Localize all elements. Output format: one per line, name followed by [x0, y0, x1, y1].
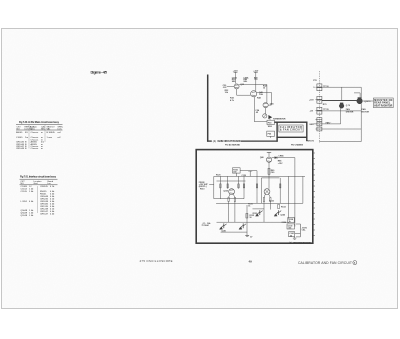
wire supply2 to Q40: [255, 72, 257, 91]
wire drop 5: [256, 171, 258, 204]
wire drop 8: [288, 176, 290, 218]
svg-text:m: m: [41, 148, 43, 150]
title box CALIBRATOR AND FAN CIRCUIT: [279, 125, 303, 132]
tab leg right: [306, 137, 308, 141]
wire Q40 collector to Q50 base: [257, 91, 272, 93]
wire R150 down: [235, 173, 237, 176]
svg-text:L 2051: L 2051: [21, 201, 28, 203]
svg-text:R120: R120: [216, 175, 221, 177]
ground under C141: [294, 237, 296, 238]
svg-text:TO FAN MOTOR: TO FAN MOTOR: [273, 117, 286, 120]
resistor R127: [256, 184, 257, 188]
tab leg left: [276, 137, 278, 141]
svg-text:R110: R110: [200, 188, 204, 190]
wire Q120 leg left down: [228, 201, 230, 222]
svg-text:B6045: B6045: [16, 132, 23, 134]
svg-text:B 30845: B 30845: [47, 132, 56, 134]
pin 1: [317, 84, 322, 87]
svg-text:MOUNTED ON: MOUNTED ON: [374, 100, 392, 102]
calibrator board outline (thick): [196, 150, 313, 244]
resistor R134: [278, 205, 280, 209]
wire Q1070 collector stub: [359, 93, 361, 97]
transistor Q40: [251, 91, 257, 97]
transistor Q30: [234, 84, 239, 89]
svg-text:CALIBRATOR AND FAN CIRCUIT: CALIBRATOR AND FAN CIRCUIT: [298, 261, 352, 265]
resistor R122: [227, 184, 228, 188]
svg-text:Diagrams—475: Diagrams—475: [91, 71, 108, 75]
transistor Q1070 (case): [357, 98, 363, 104]
wire gnd run: [322, 128, 361, 130]
board border bottom segment 2: [241, 140, 278, 142]
wire C30 to base: [227, 85, 234, 87]
svg-text:R133: R133: [253, 213, 258, 215]
transistor Q141: [242, 223, 244, 228]
tab stub to P50: [274, 121, 277, 123]
svg-text:P/O A1 MAIN BD: P/O A1 MAIN BD: [225, 144, 240, 147]
pin 2: [317, 96, 322, 99]
svg-text:300: 300: [233, 172, 236, 174]
wire short rail: [253, 208, 265, 210]
svg-text:C1045: C1045: [16, 137, 23, 139]
wire drop 7: [279, 178, 281, 203]
svg-text:CR1048: CR1048: [16, 148, 25, 150]
wire fan plus (heavy): [322, 100, 357, 102]
wire Q30 emitter to Q40 base: [236, 89, 238, 95]
wire R42 branch down to Q50: [266, 85, 268, 103]
resistor box R150: [233, 168, 241, 173]
diode CR85: [272, 157, 295, 159]
svg-text:Chassis: Chassis: [31, 148, 40, 150]
resistor R121: [220, 184, 221, 188]
svg-text:Q146: Q146: [280, 213, 285, 216]
wire Q70 branch: [340, 105, 342, 124]
wire supply1 to Q30: [235, 72, 237, 83]
wire right bus down: [294, 158, 296, 227]
svg-text:49: 49: [249, 259, 253, 263]
box C139: [287, 224, 295, 229]
wire Q40 emitter down: [253, 97, 255, 122]
CR55 to P50 stub: [269, 119, 271, 120]
svg-text:HEAT RADIATOR: HEAT RADIATOR: [374, 104, 392, 107]
table Fig 7-20: [16, 121, 64, 150]
svg-text:47: 47: [250, 236, 252, 239]
wire Q1070 to note: [363, 100, 373, 102]
wire drop 3: [238, 176, 240, 188]
transistor Q146: [277, 210, 279, 215]
connector P55 box: [267, 131, 275, 136]
svg-text:C85345: C85345: [40, 186, 48, 188]
transistor Q130: [264, 189, 270, 195]
transistor Q120: [229, 189, 235, 195]
resistor R125: [228, 198, 229, 202]
transistor Q50: [263, 103, 268, 108]
wire R150 right: [240, 170, 257, 172]
svg-text:75 OHM: 75 OHM: [202, 225, 209, 227]
bottom rail left: [221, 231, 248, 233]
wire Q30 collector run: [239, 84, 267, 86]
svg-text:.05: .05: [289, 235, 292, 237]
svg-text:2m: 2m: [25, 137, 28, 139]
second rail: [217, 180, 246, 182]
wire lower run: [322, 110, 361, 112]
Q130 emitter legs: [264, 194, 265, 197]
svg-text:Fig 7-20. Hi Par Main circuit: Fig 7-20. Hi Par Main circuit board assy: [19, 121, 60, 124]
svg-text:TP 50: TP 50: [323, 86, 329, 88]
base rail: [214, 198, 244, 200]
+15V tee in box: [248, 170, 252, 172]
wire to P50: [254, 121, 267, 123]
svg-text:m: m: [41, 132, 43, 134]
table Fig 7-21: [20, 176, 58, 218]
transistor Q145: [259, 210, 261, 215]
box R138: [288, 217, 294, 222]
wire drop 4: [243, 176, 245, 198]
resistor R129: [263, 198, 264, 202]
svg-text:Q120: Q120: [223, 190, 228, 192]
wire bottom run: [319, 141, 361, 143]
wire right interior vertical: [302, 176, 304, 203]
emitter rail: [217, 221, 289, 223]
wire to ground: [246, 205, 248, 235]
wire vertical bus: [360, 87, 362, 141]
wire input riser: [213, 176, 215, 198]
connector P50 box: [267, 120, 274, 124]
+15V tee top right: [267, 151, 271, 153]
wire Q120 leg right down: [234, 201, 236, 222]
svg-text:R132: R132: [269, 201, 274, 203]
wire Q50 emitter to fan arrow: [265, 108, 267, 114]
long mid rail: [216, 202, 303, 204]
resistor R128: [280, 184, 281, 188]
transistor Q70 (case): [339, 104, 344, 109]
resistor R130: [270, 198, 271, 202]
wire box3 to bracket: [295, 232, 301, 234]
svg-text:Q5148: Q5148: [21, 215, 28, 217]
svg-text:C136: C136: [282, 222, 287, 224]
svg-text:CR85: CR85: [278, 156, 284, 158]
svg-text:1 mm: 1 mm: [47, 137, 53, 139]
box C141: [289, 232, 295, 237]
ground symbol: [245, 234, 249, 236]
svg-text:C80: C80: [271, 172, 274, 174]
svg-text:.001: .001: [288, 228, 292, 230]
top rail +15V: [214, 175, 305, 177]
board border left (thick): [207, 75, 209, 142]
connector J1070 bracket: [299, 224, 301, 237]
svg-text:CR5147: CR5147: [40, 214, 49, 216]
right border pin ticks: [313, 153, 315, 236]
wire drop to fan line: [341, 87, 343, 100]
transistor Q140: [223, 223, 225, 228]
svg-text:DRIVER: DRIVER: [346, 111, 354, 113]
resistor R124: [243, 184, 244, 188]
svg-text:50: 50: [250, 217, 252, 219]
wire drop 6: [260, 178, 262, 203]
wire pin4 right: [322, 123, 341, 125]
wire Q130 legs down: [263, 201, 265, 222]
svg-text:& FAN CIRCUIT: & FAN CIRCUIT: [280, 129, 303, 132]
svg-text:Chassis: Chassis: [31, 132, 40, 134]
resistor R123: [238, 184, 239, 188]
wire from input label: [209, 184, 214, 186]
wire Q80 emitter down: [268, 162, 270, 188]
svg-text:+15V: +15V: [278, 163, 283, 165]
pin 4: [317, 118, 322, 122]
wire mid rail right: [262, 177, 280, 179]
wire drop 2: [227, 176, 229, 188]
Q120 emitter legs: [229, 194, 230, 197]
svg-text:MOTOR: MOTOR: [362, 111, 370, 113]
pin 5: [317, 122, 322, 126]
svg-text:475 OSCILLOSCOPE: 475 OSCILLOSCOPE: [140, 259, 173, 263]
svg-text:+15V: +15V: [309, 100, 314, 102]
P55 stub: [269, 136, 271, 138]
resistor R135: [246, 213, 248, 218]
resistor R126: [234, 198, 235, 202]
wire pin1 right: [322, 86, 361, 88]
arrow to fan motor: [268, 115, 272, 119]
svg-text:P/O CHASSIS: P/O CHASSIS: [291, 144, 304, 147]
svg-text:W1070: W1070: [308, 141, 315, 143]
tab outline around title: [277, 122, 307, 137]
note box mounted on rear: [373, 98, 393, 108]
resistor R80: [268, 168, 270, 174]
board border bottom segment 1: [207, 140, 212, 142]
transistor Q80: [266, 157, 271, 162]
svg-text:Fig 7-21. Interface circuit bo: Fig 7-21. Interface circuit board assy: [20, 176, 57, 179]
svg-text:REAR PANEL: REAR PANEL: [374, 102, 391, 105]
svg-text:GND: GND: [309, 124, 314, 126]
diode CR55: [263, 114, 267, 118]
svg-text:C1105: C1105: [21, 191, 28, 193]
pin 3: [317, 107, 322, 110]
pin 6: [317, 127, 322, 131]
interconnect dashed line: [318, 71, 320, 143]
wire drop 1: [219, 176, 221, 198]
